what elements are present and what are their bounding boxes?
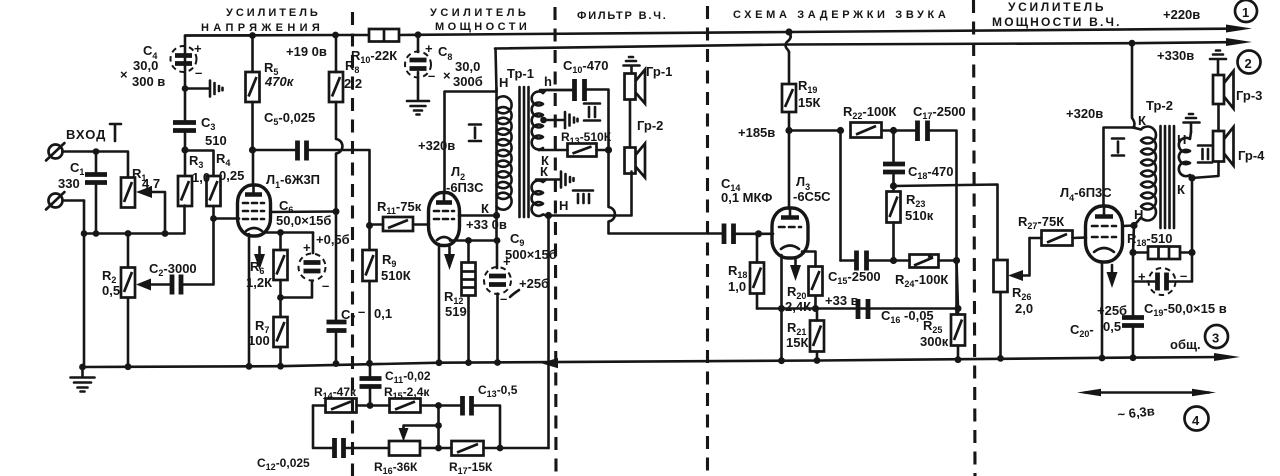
potentiometer R2 xyxy=(121,268,170,367)
loudspeaker Гр-4 xyxy=(1213,127,1234,166)
resistor R20 xyxy=(809,267,823,309)
wire: row2 R16 to R17 xyxy=(420,447,452,450)
wire: screen L4 to H node xyxy=(1123,224,1135,227)
capacitor C20 xyxy=(1122,282,1144,358)
beam tetrode tube L4 xyxy=(1086,206,1123,262)
wire: grid to tube L1 xyxy=(214,217,240,220)
svg-text:+220в: +220в xyxy=(1163,7,1200,22)
junction dot row/left bus xyxy=(81,230,88,237)
svg-text:2,0: 2,0 xyxy=(1015,301,1033,316)
label R21 15К xyxy=(786,320,808,350)
junction dot rail R19 xyxy=(785,28,792,35)
label C1 330 xyxy=(58,160,84,191)
section separator dashed line 4 xyxy=(974,0,976,476)
svg-text:К: К xyxy=(540,164,548,179)
junction dot right column R24 xyxy=(953,257,960,264)
wire: long wire to R26 xyxy=(894,185,998,261)
wire: left ground bus vertical xyxy=(83,201,86,368)
resistor R12 xyxy=(462,241,476,363)
resistor R3 xyxy=(178,150,192,206)
svg-text:15К: 15К xyxy=(786,335,808,350)
svg-text:15К: 15К xyxy=(798,95,820,110)
potentiometer R16 xyxy=(389,441,420,456)
svg-text:+320в: +320в xyxy=(418,138,455,153)
svg-text:+185в: +185в xyxy=(738,125,775,140)
svg-text:0,25: 0,25 xyxy=(219,168,244,183)
junction dot screen node xyxy=(333,208,340,215)
arrow: feedback pick point on rail xyxy=(541,358,559,368)
svg-text:C10-470: C10-470 xyxy=(563,58,608,75)
svg-text:R13-510К: R13-510К xyxy=(561,130,612,146)
wire: common bottom rail with arrow xyxy=(83,353,1241,367)
svg-text:2,4К: 2,4К xyxy=(785,299,811,314)
junction dot C9 top / transformer K xyxy=(494,237,501,244)
label R1 4,7 xyxy=(132,166,160,191)
svg-text:0,5: 0,5 xyxy=(1103,319,1121,334)
input label ВХОД I xyxy=(66,124,121,142)
wire: screen wire L1 to riser xyxy=(271,210,337,213)
heater supply double arrow xyxy=(1077,389,1216,397)
section title: УСИЛИТЕЛЬ МОЩНОСТИ В.Ч. xyxy=(992,0,1121,29)
junction dot row1 C11 xyxy=(367,402,374,409)
svg-text:Тр-1: Тр-1 xyxy=(507,66,534,81)
junction dot rail R5 xyxy=(249,32,256,39)
svg-text:+19 0в: +19 0в xyxy=(286,44,327,59)
resistor R5 xyxy=(246,36,260,151)
junction dot rail C9 xyxy=(494,359,501,366)
beam tetrode tube L2 xyxy=(429,193,460,246)
label winding I roman xyxy=(469,125,481,142)
junction dot R12 top xyxy=(465,237,472,244)
capacitor C16 xyxy=(858,299,868,319)
wire: C15 riser xyxy=(839,131,842,261)
junction dot C15 branch xyxy=(837,127,844,134)
potentiometer R26 xyxy=(994,260,1008,358)
wire: feedback row2 left leg xyxy=(313,406,333,449)
wire: R27 to R26 wiper xyxy=(1016,238,1030,276)
svg-text:R16-36К: R16-36К xyxy=(374,460,418,476)
potentiometer R24 xyxy=(910,255,957,268)
svg-text:+330в: +330в xyxy=(1157,48,1194,63)
loudspeaker Гр-2 xyxy=(625,144,646,178)
svg-text:510к: 510к xyxy=(905,208,934,223)
capacitor C18 xyxy=(883,131,905,187)
capacitor C17 xyxy=(918,121,957,314)
resistor R21 xyxy=(810,309,824,361)
arrow: cathode current L1 xyxy=(254,247,265,270)
resistor R22 xyxy=(851,123,917,138)
section separator dashed line 2 xyxy=(555,7,556,476)
ground symbol above Гр-1 xyxy=(624,57,640,74)
svg-text:+33 0в: +33 0в xyxy=(466,217,507,232)
transformer Tr2 primary winding xyxy=(1133,126,1156,225)
arrow: cathode current L4 xyxy=(1107,265,1118,288)
ground above Tr2 secondary xyxy=(1184,114,1200,132)
junction dot anode L3 node xyxy=(785,127,792,134)
wire: cathode row to R6/C6 xyxy=(266,231,313,234)
svg-text:УСИЛИТЕЛЬ: УСИЛИТЕЛЬ xyxy=(226,7,321,19)
resistor R7 xyxy=(274,298,288,367)
svg-text:К: К xyxy=(481,201,489,216)
resistor R19 xyxy=(782,52,796,131)
label C4 x30,0 300в xyxy=(120,43,165,89)
label II roman xyxy=(584,104,600,121)
loudspeaker Гр-3 xyxy=(1213,71,1234,131)
junction dot rail R25 xyxy=(955,356,962,363)
junction dot rail left bus xyxy=(79,364,86,371)
wire: anode L3 xyxy=(788,131,791,209)
svg-text:300 в: 300 в xyxy=(132,74,165,89)
svg-text:+0,5б: +0,5б xyxy=(316,232,350,247)
transformer Tr2 secondary II winding xyxy=(1179,132,1192,178)
junction dot rail R7 xyxy=(277,363,284,370)
ground symbol bottom left xyxy=(71,367,95,392)
svg-text:C2-3000: C2-3000 xyxy=(149,261,197,278)
label R26 2,0 xyxy=(1012,285,1033,316)
svg-text:–: – xyxy=(358,304,365,319)
label II roman Tr2 xyxy=(1198,146,1212,163)
svg-text:C5-0,025: C5-0,025 xyxy=(264,110,315,127)
input terminal 1 xyxy=(46,143,96,161)
wire: cathode row y308 xyxy=(757,307,958,310)
label R19 15К xyxy=(798,78,820,110)
resistor R18b-510 xyxy=(1133,247,1192,260)
capacitor C19 electrolytic xyxy=(1133,253,1192,296)
svg-text:300к: 300к xyxy=(920,334,949,349)
transformer Tr1 core xyxy=(520,87,529,217)
resistor R8 xyxy=(329,35,343,102)
svg-text:R18-510: R18-510 xyxy=(1127,231,1172,248)
wire: ground feedback column x548 xyxy=(547,216,550,363)
terminal number 1 circled xyxy=(1235,0,1257,22)
resistor R6 xyxy=(274,233,288,298)
capacitor C13 xyxy=(463,396,501,448)
resistor R25 xyxy=(951,309,965,360)
svg-text:C13-0,5: C13-0,5 xyxy=(478,383,518,399)
svg-text:-6П3С: -6П3С xyxy=(446,180,484,195)
junction dot rail L3 cathode xyxy=(778,357,785,364)
triode-pentode tube L1 xyxy=(238,185,271,236)
label winding I roman Tr2 xyxy=(1112,139,1124,156)
svg-text:ВХОД: ВХОД xyxy=(66,127,106,142)
junction dot R9/R11 xyxy=(366,222,373,229)
svg-text:–: – xyxy=(195,65,202,80)
resistor R23 xyxy=(887,186,901,261)
wire: anode side wire L2 to K node xyxy=(459,214,497,217)
junction dot R20/R21 xyxy=(812,305,819,312)
label R8 2,2 xyxy=(344,58,362,91)
svg-text:–: – xyxy=(428,68,435,83)
resistor R11 xyxy=(370,217,430,231)
junction dot row2 C13/R17 xyxy=(497,445,504,452)
capacitor C10 xyxy=(540,79,609,150)
svg-text:-6С5С: -6С5С xyxy=(793,189,831,204)
wire: R20 feed from tube xyxy=(802,252,816,267)
svg-text:R10-22К: R10-22К xyxy=(351,48,397,65)
junction dot cathode row R6 xyxy=(277,229,284,236)
resistor R13 xyxy=(539,144,609,157)
label Л3 -6С5С xyxy=(793,174,831,204)
junction dot row/R1R2 xyxy=(125,230,132,237)
svg-text:R24-100К: R24-100К xyxy=(895,272,948,289)
junction dot rail cathode L4 xyxy=(1099,355,1106,362)
transformer Tr1 winding III xyxy=(532,180,548,217)
wire: rail2 corner down to Tr1 primary H xyxy=(496,49,497,92)
svg-text:0,1 МКФ: 0,1 МКФ xyxy=(721,190,772,205)
section title: УСИЛИТЕЛЬ НАПРЯЖЕНИЯ xyxy=(201,7,323,34)
terminal number 2 circled xyxy=(1238,51,1261,74)
capacitor C14 xyxy=(724,224,759,245)
junction dot rail R12 xyxy=(465,359,472,366)
svg-text:50,0×15б: 50,0×15б xyxy=(276,213,331,228)
junction dot C18 branch xyxy=(890,127,897,134)
resistor R17 xyxy=(452,441,549,456)
potentiometer R1 xyxy=(121,178,165,234)
label R9 510К xyxy=(381,252,411,283)
junction dot C4/ground xyxy=(182,85,189,92)
svg-text:C18-470: C18-470 xyxy=(908,164,953,181)
junction dot row/C1 xyxy=(93,230,100,237)
resistor R14 xyxy=(326,399,390,413)
junction dot rail cathode L2 xyxy=(436,359,443,366)
svg-text:0,1: 0,1 xyxy=(374,306,392,321)
junction dot rail2 Tr2 xyxy=(1129,40,1136,47)
capacitor C4 electrolytic xyxy=(171,36,253,89)
wire: K node to Гр-4 xyxy=(1192,162,1219,179)
svg-text:C12-0,025: C12-0,025 xyxy=(257,456,310,472)
svg-text:R27-75К: R27-75К xyxy=(1018,214,1064,231)
transformer Tr1 primary winding I xyxy=(497,96,512,209)
label R23 510к xyxy=(905,192,934,223)
junction dot secondary K node xyxy=(1188,174,1195,181)
capacitor C2 xyxy=(172,219,214,295)
junction dot R6/R7/C6 xyxy=(277,294,284,301)
wire: cathode L3 xyxy=(780,255,783,361)
junction dot H screen node xyxy=(1130,222,1137,229)
capacitor C3 xyxy=(173,89,196,151)
arrow: cathode current L2 xyxy=(444,247,455,270)
label C8 x30,0 300в xyxy=(438,44,483,89)
junction dot rail R9/C11 xyxy=(366,360,373,367)
arrow: R26 wiper head xyxy=(1008,270,1023,281)
svg-text:330: 330 xyxy=(58,176,80,191)
svg-text:C15-2500: C15-2500 xyxy=(828,269,881,286)
wire: grid row y233 xyxy=(84,206,185,234)
junction dot row/wiper xyxy=(162,230,169,237)
junction dot C3/R3/R4 xyxy=(181,146,188,153)
terminal number 3 circled xyxy=(1205,325,1228,348)
junction dot C18 bottom xyxy=(890,182,897,189)
svg-text:–: – xyxy=(500,291,507,306)
svg-text:–: – xyxy=(1180,268,1187,283)
svg-text:R15-2,4к: R15-2,4к xyxy=(384,385,430,401)
label R6 1,2К xyxy=(246,259,272,290)
svg-text:–: – xyxy=(322,278,329,293)
junction dot rail R21 xyxy=(814,357,821,364)
wire: speaker return row xyxy=(549,172,632,216)
resistor R15 xyxy=(390,399,462,413)
wire: to R4 riser xyxy=(185,151,214,177)
capacitor C15 xyxy=(841,251,910,271)
svg-text:×: × xyxy=(120,67,128,82)
junction dot R18b left xyxy=(1129,249,1136,256)
svg-text:×: × xyxy=(443,68,451,83)
junction dot rail R8/R10 xyxy=(332,32,339,39)
svg-text:1,2К: 1,2К xyxy=(246,275,272,290)
svg-text:МОЩНОСТИ В.Ч.: МОЩНОСТИ В.Ч. xyxy=(992,15,1121,29)
svg-text:3: 3 xyxy=(1212,331,1219,346)
capacitor C7 xyxy=(327,212,347,364)
junction dot winding III H xyxy=(545,212,552,219)
capacitor C5 xyxy=(253,141,370,226)
label R12 519 xyxy=(444,289,467,319)
resistor R4 xyxy=(207,176,221,219)
wire: anode L4 to Tr2 xyxy=(1104,128,1136,207)
junction dot rail R2 xyxy=(125,363,132,370)
wire: input row to R1 top xyxy=(96,152,128,178)
junction dot rail R26 xyxy=(997,355,1004,362)
transformer Tr1 secondary II winding xyxy=(532,90,573,150)
junction dot R18b right xyxy=(1188,249,1195,256)
ground sideways at C4 xyxy=(185,81,223,97)
svg-text:+33 в: +33 в xyxy=(825,293,859,308)
wire: grid to tube L3 xyxy=(759,233,774,236)
label R20 2,4К xyxy=(785,284,811,314)
label C14 0,1 МКФ xyxy=(721,176,772,205)
label C6 50,0x15б xyxy=(276,198,331,228)
wire: K node down to R18b right node xyxy=(1191,178,1194,253)
wire: cathode row L2 to C9 xyxy=(450,239,497,242)
junction dot R23/R24 row xyxy=(890,257,897,264)
resistor R9 xyxy=(363,226,377,364)
svg-text:+25б: +25б xyxy=(519,276,549,291)
junction dot wiper feed xyxy=(435,422,442,429)
wire: row2 right leg up to rail xyxy=(547,363,550,448)
svg-text:1: 1 xyxy=(1242,5,1249,20)
resistor R10 (on rail) xyxy=(369,29,399,42)
label R18 1,0 xyxy=(728,263,747,294)
resistor R27 xyxy=(1030,231,1087,246)
svg-text:+: + xyxy=(303,240,311,255)
label C3 510 xyxy=(201,115,227,148)
junction dot grid node L1 xyxy=(210,215,217,222)
junction dot C16/R25 xyxy=(955,305,962,312)
section separator dashed line 1 xyxy=(351,12,354,476)
label Л2 -6П3С xyxy=(446,164,484,195)
section separator dashed line 3 xyxy=(706,6,709,476)
svg-text:2: 2 xyxy=(1245,56,1252,71)
svg-text:МОЩНОСТИ: МОЩНОСТИ xyxy=(435,21,530,33)
tap wire and sideways ground on winding III xyxy=(536,172,574,188)
input terminal 2 xyxy=(46,192,84,210)
capacitor C9 electrolytic xyxy=(484,241,511,363)
svg-text:Гр-4: Гр-4 xyxy=(1238,148,1265,163)
svg-text:300б: 300б xyxy=(453,74,483,89)
svg-text:C17-2500: C17-2500 xyxy=(913,104,966,121)
wire: cathode L1 down to rail xyxy=(248,234,251,367)
svg-text:ФИЛЬТР В.Ч.: ФИЛЬТР В.Ч. xyxy=(577,10,669,22)
svg-text:R17-15К: R17-15К xyxy=(449,460,493,476)
svg-text:4: 4 xyxy=(1192,413,1200,428)
svg-text:h: h xyxy=(544,74,552,89)
label R25 300к xyxy=(920,318,949,349)
wire: +330v second rail with arrow xyxy=(495,38,1252,49)
svg-text:Гр-1: Гр-1 xyxy=(646,64,672,79)
junction dot rail C7 xyxy=(333,360,340,367)
junction dot rail cathode L1 xyxy=(246,363,253,370)
label R7 100 xyxy=(248,318,270,348)
wire: cathode L4 xyxy=(1101,262,1104,358)
capacitor C1 xyxy=(85,152,107,234)
ground above Гр-3 xyxy=(1210,51,1226,76)
svg-text:519: 519 xyxy=(445,304,467,319)
svg-text:R11-75к: R11-75к xyxy=(377,199,422,216)
wire: rail2 drop to Tr2 K node xyxy=(1132,43,1134,127)
wire: node to R22 xyxy=(789,129,841,132)
junction dot anode L1 / C5 xyxy=(249,146,256,153)
svg-text:СХЕМА ЗАДЕРЖКИ ЗВУКА: СХЕМА ЗАДЕРЖКИ ЗВУКА xyxy=(733,9,949,21)
svg-text:НАПРЯЖЕНИЯ: НАПРЯЖЕНИЯ xyxy=(201,22,323,34)
loudspeaker Гр-1 xyxy=(625,70,646,148)
wire: anode L2 up and to transformer xyxy=(445,92,497,193)
transformer Tr2 core xyxy=(1161,126,1175,228)
junction dot row1 R16 feed xyxy=(435,402,442,409)
ground symbol under C8 xyxy=(407,101,429,115)
svg-text:+320в: +320в xyxy=(1066,106,1103,121)
label C7 - 0,1 xyxy=(341,304,392,324)
junction dot cathode/row xyxy=(778,305,785,312)
svg-text:Гр-2: Гр-2 xyxy=(637,118,663,133)
arrow: cathode current L3 xyxy=(790,258,801,281)
junction dot rail C8 xyxy=(415,31,422,38)
svg-text:2,2: 2,2 xyxy=(344,76,362,91)
wire: filter column hop and output to C14 xyxy=(609,150,723,234)
junction dot K node xyxy=(493,212,500,219)
junction node input row / C1 xyxy=(93,148,100,155)
wire: cathode L2 to rail xyxy=(438,244,441,363)
svg-text:C11-0,02: C11-0,02 xyxy=(385,369,431,385)
svg-text:УСИЛИТЕЛЬ: УСИЛИТЕЛЬ xyxy=(430,7,529,19)
junction dot R13 right column xyxy=(605,146,612,153)
svg-text:+: + xyxy=(1138,269,1146,284)
label C20 0,5 and +25б xyxy=(1070,303,1127,339)
svg-text:Н: Н xyxy=(559,198,568,213)
svg-text:Н: Н xyxy=(1134,207,1143,222)
svg-text:30,0: 30,0 xyxy=(455,59,480,74)
wire: R2 riser xyxy=(127,234,130,268)
wire: feedback row1 xyxy=(313,404,326,407)
svg-text:Гр-3: Гр-3 xyxy=(1236,88,1262,103)
section title: УСИЛИТЕЛЬ МОЩНОСТИ xyxy=(430,7,530,33)
capacitor C6 electrolytic xyxy=(281,233,330,298)
svg-text:510К: 510К xyxy=(381,268,411,283)
triode tube L3 xyxy=(772,208,808,258)
svg-text:Тр-2: Тр-2 xyxy=(1146,98,1173,113)
wire: R16 wiper feed xyxy=(437,406,440,449)
svg-text:0,5: 0,5 xyxy=(102,283,120,298)
wire: anode node to tube top xyxy=(252,150,255,186)
junction dot grid L3 xyxy=(755,230,762,237)
label R2 0,5 xyxy=(102,268,120,298)
svg-text:470к: 470к xyxy=(264,74,295,89)
label C9 500x15б +25б xyxy=(505,231,557,297)
terminal number 4 circled xyxy=(1185,407,1209,431)
junction dot row2 xyxy=(435,445,442,452)
arrow: R16 wiper xyxy=(399,426,439,442)
label R3 1,0 xyxy=(189,153,210,185)
svg-text:+25б: +25б xyxy=(1097,303,1127,318)
wire: transformer primary feed line xyxy=(495,88,498,241)
